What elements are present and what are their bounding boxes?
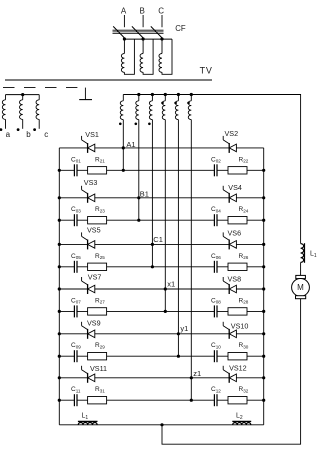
junction y1 row 5 [177,332,180,335]
svg-text:VS10: VS10 [231,322,249,331]
polarity dot winding S4 [161,102,164,105]
junction right bus snubber 3 [262,265,265,268]
row 2 snubber wire [59,219,263,221]
resistor R25 [88,263,107,270]
junction x1 row 4 [164,287,167,290]
junction x1 snubber 4 [164,310,167,313]
svg-text:L1: L1 [82,413,89,421]
motor return wire [162,299,301,445]
polarity dot winding b [17,128,20,131]
transformer TV secondary winding S6 [190,95,192,101]
junction z1 row 6 [190,376,193,379]
svg-text:z1: z1 [193,369,201,378]
junction left bus row 5 [58,332,61,335]
junction B1 snubber 2 [137,219,140,222]
junction star bus winding S3 [151,93,154,96]
screen ground bar [79,99,92,101]
thyristor VS4 [228,193,230,203]
junction left bus snubber 2 [58,219,61,222]
screen lead [84,88,86,100]
row 4 anode wire [59,288,263,290]
aux secondary star bus [6,94,40,96]
polarity dot winding S5 [174,102,177,105]
capacitor C11 [75,399,77,402]
thyristor VS1 [87,143,89,153]
thyristor VS7 [87,284,89,294]
junction node phase B / delta bus [142,37,145,40]
junction y1 snubber 5 [177,355,180,358]
svg-text:VS3: VS3 [84,178,98,187]
row 6 anode wire [59,377,263,379]
svg-text:VS7: VS7 [88,273,102,282]
wire choke to motor [300,262,302,275]
junction node phase C / delta bus [160,37,163,40]
junction left bus row 2 [58,196,61,199]
inductor L2 [233,423,251,425]
junction star bus winding S6 [190,93,193,96]
svg-text:c: c [44,130,48,139]
junction left bus snubber 6 [58,399,61,402]
neutral star bus / wire to choke [123,95,300,244]
transformer TV secondary winding S3 [151,95,153,101]
row 4 snubber wire [59,310,263,312]
row 2 anode wire [59,197,263,199]
aux secondary winding c [38,95,40,100]
phase line B [142,15,144,27]
transformer TV primary winding W1 [123,39,125,53]
capacitor C07 [75,310,77,313]
capacitor C09 [75,355,77,358]
transformer TV secondary winding S1 [122,95,124,101]
resistor R24 [228,217,247,224]
phase line A [123,15,125,27]
polarity dot winding a [0,128,2,131]
motor M body [292,279,310,297]
transformer screen (dashed) [3,87,77,89]
resistor R28 [228,308,247,315]
right anode bus [263,148,265,425]
svg-text:VS5: VS5 [87,226,101,235]
capacitor C06 [215,265,217,268]
junction z1 snubber 6 [190,399,193,402]
capacitor C08 [215,310,217,313]
polarity dot winding c [33,128,36,131]
junction C1 row 3 [151,243,154,246]
svg-text:VS6: VS6 [228,228,242,237]
resistor R29 [88,353,107,360]
left cathode bus [58,148,60,425]
transformer TV secondary winding S5 [177,95,179,101]
svg-text:x1: x1 [167,279,175,288]
capacitor C03 [75,219,77,222]
svg-text:CF: CF [175,24,186,33]
choke L0 core line [304,243,306,263]
transformer TV secondary winding S2 [138,95,140,101]
junction left bus row 3 [58,243,61,246]
junction node phase A / delta bus [123,37,126,40]
thyristor VS12 [228,373,230,383]
breaker CF linkage lines [113,29,164,31]
thyristor VS8 [228,284,230,294]
junction right bus row 3 [262,243,265,246]
capacitor C04 [215,219,217,222]
junction right bus row 5 [262,332,265,335]
resistor R27 [88,308,107,315]
junction C1 snubber 3 [151,265,154,268]
thyristor VS6 [228,240,230,250]
junction right bus row 4 [262,287,265,290]
resistor R31 [88,397,107,404]
junction right bus snubber 5 [262,355,265,358]
transformer TV primary winding W2 [142,39,144,53]
row 5 anode wire [59,333,263,335]
motor brush top [296,275,306,278]
svg-text:y1: y1 [180,324,188,333]
junction aux bus winding b [21,93,24,96]
junction star bus winding S4 [164,93,167,96]
capacitor C05 [75,265,77,268]
svg-text:b: b [26,130,31,139]
svg-text:A: A [121,7,127,16]
breaker CF blade phase C [151,26,162,38]
svg-text:B: B [140,7,145,16]
svg-text:VS9: VS9 [87,319,101,328]
svg-text:a: a [6,130,11,139]
svg-text:B1: B1 [140,190,149,199]
inductor L1 [78,422,97,424]
junction motor return / smoothing bus [160,423,163,426]
phase line C [161,15,163,27]
capacitor C12 [215,399,217,402]
polarity dot winding S6 [187,102,190,105]
junction B1 row 2 [137,196,140,199]
polarity dot winding S2 [135,123,138,126]
svg-text:VS11: VS11 [90,364,107,373]
junction left bus snubber 5 [58,355,61,358]
transformer TV core [5,79,212,81]
aux secondary winding a [5,95,7,100]
motor brush bottom [296,296,306,299]
thyristor VS9 [87,329,89,339]
junction right bus row 6 [262,376,265,379]
svg-text:VS4: VS4 [228,183,242,192]
svg-text:M: M [297,283,304,292]
breaker CF blade phase A [113,26,124,38]
resistor R26 [228,263,247,270]
transformer TV primary winding W3 [161,39,163,53]
polarity dot winding S1 [119,123,122,126]
thyristor VS11 [87,373,89,383]
thyristor VS2 [228,143,230,153]
row 1 snubber wire [59,169,263,171]
row 6 snubber wire [59,399,263,401]
resistor R21 [88,167,107,174]
delta bus (primary interconnection) [124,38,172,40]
transformer TV secondary winding S4 [164,95,166,101]
svg-text:C1: C1 [153,235,163,244]
junction right bus row 2 [262,196,265,199]
svg-text:TV: TV [200,66,213,76]
thyristor VS5 [87,240,89,250]
junction left bus row 6 [58,376,61,379]
svg-text:VS1: VS1 [85,130,99,139]
resistor R23 [88,217,107,224]
junction left bus snubber 4 [58,310,61,313]
aux secondary winding b [22,95,24,100]
choke L0 coil [301,244,304,263]
junction left bus snubber 1 [58,169,61,172]
junction right bus snubber 6 [262,399,265,402]
svg-text:VS12: VS12 [229,364,247,373]
thyristor VS3 [87,193,89,203]
resistor R30 [228,353,247,360]
junction right bus snubber 1 [262,169,265,172]
junction right bus snubber 2 [262,219,265,222]
junction left bus row 4 [58,287,61,290]
svg-text:VS8: VS8 [228,275,242,284]
junction A1 row 1 [122,146,125,149]
junction A1 snubber 1 [122,169,125,172]
capacitor C01 [75,169,77,172]
junction star bus winding S2 [137,93,140,96]
svg-text:L1: L1 [310,251,317,259]
junction left bus snubber 3 [58,265,61,268]
breaker CF blade phase B [132,26,143,38]
polarity dot winding S3 [148,123,151,126]
capacitor C10 [215,355,217,358]
thyristor VS10 [228,329,230,339]
junction right bus snubber 4 [262,310,265,313]
svg-text:L2: L2 [236,413,243,421]
junction star bus winding S5 [177,93,180,96]
row 3 anode wire [59,243,263,245]
capacitor C02 [215,169,217,172]
row 1 anode wire [59,147,263,149]
row 5 snubber wire [59,355,263,357]
svg-text:VS2: VS2 [225,129,239,138]
row 3 snubber wire [59,266,263,268]
svg-text:C: C [158,7,164,16]
resistor R22 [228,167,247,174]
smoothing bus [59,424,263,426]
resistor R32 [228,397,247,404]
